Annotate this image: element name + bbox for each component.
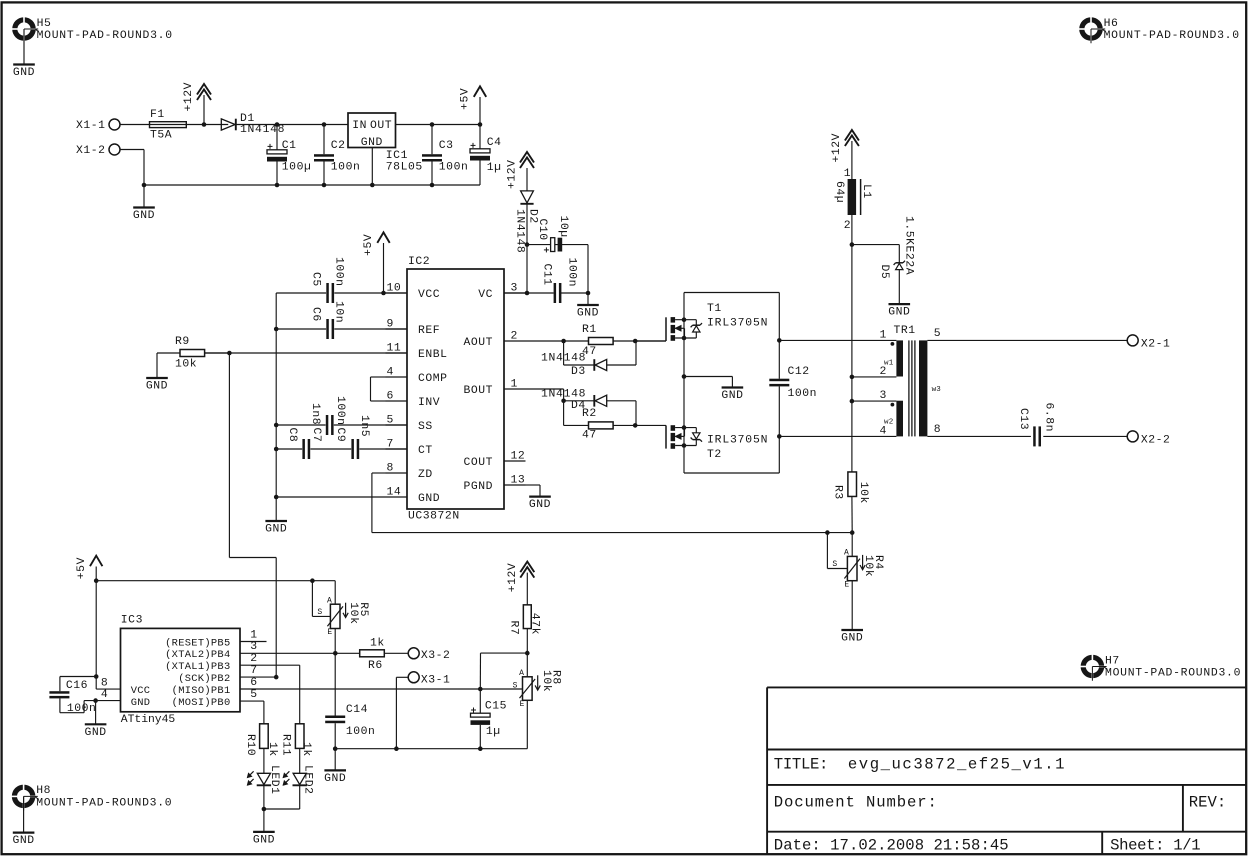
svg-text:GND: GND (361, 137, 383, 149)
svg-text:MOUNT-PAD-ROUND3.0: MOUNT-PAD-ROUND3.0 (1105, 668, 1241, 680)
svg-text:R8: R8 (550, 670, 562, 685)
svg-text:100n: 100n (67, 703, 97, 715)
svg-text:COMP: COMP (418, 373, 448, 385)
svg-text:OUT: OUT (370, 120, 392, 132)
svg-text:2: 2 (880, 366, 887, 378)
svg-text:H8: H8 (36, 785, 51, 797)
svg-text:GND: GND (418, 493, 440, 505)
svg-text:IC1: IC1 (386, 150, 408, 162)
svg-text:IC3: IC3 (121, 615, 143, 627)
svg-text:C1: C1 (282, 140, 297, 152)
svg-text:14: 14 (387, 486, 402, 498)
svg-text:GND: GND (529, 499, 551, 511)
svg-text:BOUT: BOUT (463, 385, 493, 397)
svg-text:100n: 100n (334, 396, 346, 426)
svg-text:1k: 1k (266, 742, 278, 757)
svg-text:D1: D1 (240, 113, 255, 125)
svg-text:T1: T1 (707, 303, 722, 315)
svg-text:PGND: PGND (463, 481, 493, 493)
svg-text:Date: 17.02.2008 21:58:45: Date: 17.02.2008 21:58:45 (774, 837, 1009, 855)
svg-text:2: 2 (844, 220, 851, 232)
svg-text:1µ: 1µ (487, 162, 502, 174)
svg-text:C5: C5 (310, 272, 322, 287)
svg-text:1µ: 1µ (486, 726, 501, 738)
svg-text:78L05: 78L05 (386, 161, 423, 173)
svg-text:C9: C9 (334, 428, 346, 443)
svg-text:S: S (513, 682, 518, 691)
svg-text:+5V: +5V (363, 234, 375, 256)
svg-text:ENBL: ENBL (418, 349, 448, 361)
svg-text:C6: C6 (310, 307, 322, 322)
svg-text:SS: SS (418, 421, 433, 433)
svg-text:13: 13 (511, 474, 526, 486)
svg-text:TITLE:: TITLE: (774, 756, 829, 774)
svg-text:IN: IN (352, 120, 367, 132)
svg-text:X1-2: X1-2 (76, 145, 106, 157)
svg-text:H7: H7 (1105, 655, 1120, 667)
svg-text:47: 47 (582, 430, 597, 442)
svg-text:2: 2 (511, 330, 518, 342)
svg-text:H6: H6 (1104, 18, 1119, 30)
svg-text:VCC: VCC (131, 685, 151, 697)
svg-text:D3: D3 (571, 366, 586, 378)
svg-text:GND: GND (721, 390, 743, 402)
svg-text:100n: 100n (439, 161, 469, 173)
svg-text:H5: H5 (37, 18, 52, 30)
svg-text:VC: VC (478, 289, 493, 301)
svg-text:10n: 10n (333, 301, 345, 323)
svg-text:IC2: IC2 (408, 256, 430, 268)
svg-text:C11: C11 (540, 264, 552, 286)
svg-text:+12V: +12V (831, 133, 843, 163)
svg-text:10k: 10k (175, 358, 197, 370)
svg-text:GND: GND (133, 210, 155, 222)
svg-text:(SCK)PB2: (SCK)PB2 (178, 673, 230, 685)
svg-text:R5: R5 (357, 602, 369, 617)
svg-text:REV:: REV: (1189, 793, 1226, 811)
svg-text:GND: GND (324, 773, 346, 785)
svg-text:R10: R10 (244, 734, 256, 756)
svg-text:(MISO)PB1: (MISO)PB1 (172, 685, 231, 697)
svg-text:3: 3 (250, 641, 257, 653)
svg-text:D5: D5 (878, 265, 890, 280)
svg-text:64µ: 64µ (833, 181, 845, 203)
svg-text:C4: C4 (487, 137, 502, 149)
svg-text:C13: C13 (1017, 408, 1029, 430)
svg-text:R9: R9 (175, 336, 190, 348)
svg-text:R11: R11 (280, 734, 292, 756)
svg-text:(XTAL2)PB4: (XTAL2)PB4 (165, 649, 230, 661)
svg-text:X3-2: X3-2 (421, 650, 451, 662)
svg-text:100n: 100n (565, 258, 577, 288)
svg-text:L1: L1 (860, 184, 872, 199)
svg-text:X3-1: X3-1 (421, 674, 451, 686)
svg-text:C12: C12 (788, 366, 810, 378)
svg-text:GND: GND (146, 381, 168, 393)
svg-text:C14: C14 (346, 704, 368, 716)
svg-text:R6: R6 (368, 660, 383, 672)
svg-text:T5A: T5A (150, 130, 172, 142)
svg-text:w2: w2 (884, 418, 893, 426)
svg-text:1N4148: 1N4148 (514, 209, 526, 253)
svg-text:GND: GND (265, 524, 287, 536)
svg-text:C16: C16 (66, 680, 88, 692)
svg-text:ATtiny45: ATtiny45 (121, 714, 176, 726)
svg-text:8: 8 (387, 462, 394, 474)
svg-text:R2: R2 (582, 408, 597, 420)
svg-text:10µ: 10µ (557, 216, 569, 238)
svg-text:AOUT: AOUT (463, 337, 493, 349)
svg-text:100n: 100n (788, 388, 818, 400)
svg-text:1: 1 (250, 629, 257, 641)
svg-text:+12V: +12V (183, 82, 195, 112)
svg-text:GND: GND (85, 727, 107, 739)
svg-text:1.5KE22A: 1.5KE22A (903, 216, 915, 275)
svg-text:GND: GND (577, 308, 599, 320)
svg-text:100n: 100n (333, 257, 345, 287)
svg-text:+5V: +5V (76, 557, 88, 579)
svg-text:REF: REF (418, 325, 440, 337)
svg-text:w1: w1 (884, 359, 894, 367)
svg-text:1n8: 1n8 (309, 403, 321, 425)
svg-text:1k: 1k (370, 638, 385, 650)
svg-text:6: 6 (387, 390, 394, 402)
svg-text:4: 4 (387, 366, 394, 378)
svg-text:2: 2 (250, 653, 257, 665)
svg-text:S: S (317, 608, 322, 617)
svg-text:+12V: +12V (507, 159, 519, 189)
svg-text:C7: C7 (310, 428, 322, 443)
svg-text:(RESET)PB5: (RESET)PB5 (165, 637, 230, 649)
svg-text:8: 8 (101, 678, 108, 690)
svg-text:w3: w3 (932, 386, 942, 394)
svg-text:1N4148: 1N4148 (541, 388, 586, 400)
svg-text:12: 12 (511, 450, 526, 462)
svg-text:LED2: LED2 (302, 765, 314, 795)
svg-text:A: A (844, 549, 849, 558)
svg-text:S: S (832, 560, 837, 569)
svg-text:LED1: LED1 (268, 765, 280, 795)
svg-text:4: 4 (101, 689, 108, 701)
svg-text:(XTAL1)PB3: (XTAL1)PB3 (165, 661, 230, 673)
svg-text:R3: R3 (831, 485, 843, 500)
svg-text:10k: 10k (857, 482, 869, 504)
svg-text:GND: GND (13, 67, 35, 79)
svg-text:3: 3 (880, 390, 887, 402)
svg-text:T2: T2 (707, 449, 722, 461)
svg-text:C15: C15 (485, 700, 507, 712)
svg-text:+12V: +12V (507, 563, 519, 593)
svg-text:C3: C3 (439, 140, 454, 152)
svg-text:100n: 100n (346, 726, 376, 738)
svg-text:1n5: 1n5 (358, 415, 370, 437)
svg-text:47k: 47k (528, 613, 540, 635)
svg-text:(MOSI)PB0: (MOSI)PB0 (172, 697, 231, 709)
svg-text:GND: GND (888, 307, 910, 319)
svg-text:INV: INV (418, 397, 440, 409)
svg-text:100n: 100n (331, 161, 361, 173)
svg-text:1: 1 (880, 330, 887, 342)
svg-text:A: A (327, 597, 332, 606)
svg-text:IRL3705N: IRL3705N (707, 317, 768, 329)
svg-text:C2: C2 (331, 140, 346, 152)
svg-text:GND: GND (13, 835, 35, 847)
svg-text:GND: GND (253, 835, 275, 847)
svg-text:E: E (844, 580, 849, 589)
svg-text:ZD: ZD (418, 469, 433, 481)
svg-text:1N4148: 1N4148 (541, 352, 586, 364)
svg-text:5: 5 (250, 689, 257, 701)
svg-text:A: A (519, 669, 524, 678)
svg-text:5: 5 (934, 328, 941, 340)
svg-text:R7: R7 (508, 621, 520, 636)
svg-text:COUT: COUT (463, 457, 493, 469)
svg-text:Sheet: 1/1: Sheet: 1/1 (1110, 837, 1201, 855)
svg-text:VCC: VCC (418, 289, 440, 301)
svg-text:CT: CT (418, 445, 433, 457)
svg-text:100µ: 100µ (282, 161, 312, 173)
svg-text:GND: GND (841, 633, 863, 645)
svg-text:E: E (327, 628, 332, 637)
svg-text:8: 8 (934, 424, 941, 436)
svg-text:MOUNT-PAD-ROUND3.0: MOUNT-PAD-ROUND3.0 (37, 30, 173, 42)
svg-text:E: E (520, 700, 525, 709)
svg-text:X2-2: X2-2 (1141, 435, 1171, 447)
svg-text:F1: F1 (150, 109, 165, 121)
svg-text:Document Number:: Document Number: (774, 793, 937, 811)
svg-text:MOUNT-PAD-ROUND3.0: MOUNT-PAD-ROUND3.0 (1104, 30, 1240, 42)
svg-text:GND: GND (131, 697, 151, 709)
svg-text:C10: C10 (536, 219, 548, 241)
svg-text:X1-1: X1-1 (76, 120, 106, 132)
svg-text:C8: C8 (286, 428, 298, 443)
svg-text:7: 7 (250, 665, 257, 677)
svg-text:MOUNT-PAD-ROUND3.0: MOUNT-PAD-ROUND3.0 (36, 797, 172, 809)
svg-text:R1: R1 (582, 324, 597, 336)
svg-text:6.8n: 6.8n (1042, 403, 1054, 433)
svg-text:4: 4 (880, 425, 887, 437)
svg-text:1: 1 (844, 168, 851, 180)
svg-text:6: 6 (250, 677, 257, 689)
svg-text:X2-1: X2-1 (1141, 339, 1171, 351)
svg-text:R4: R4 (872, 555, 884, 570)
svg-text:UC3872N: UC3872N (408, 511, 460, 523)
svg-text:1k: 1k (300, 742, 312, 757)
svg-text:IRL3705N: IRL3705N (707, 435, 768, 447)
svg-text:+5V: +5V (460, 88, 472, 110)
svg-text:1: 1 (511, 378, 518, 390)
svg-text:TR1: TR1 (894, 325, 916, 337)
